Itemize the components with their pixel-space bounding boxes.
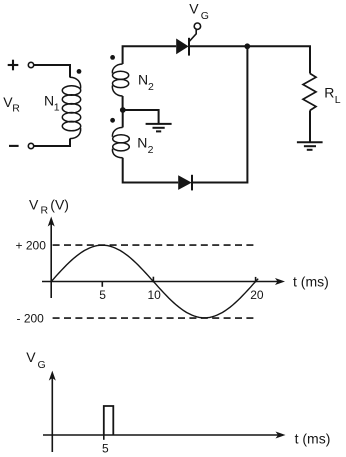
secondary coil N2 lower <box>112 127 129 157</box>
svg-text:V: V <box>29 197 39 213</box>
label VR source <box>3 94 20 115</box>
phase dot N2 upper <box>110 55 115 60</box>
svg-text:20: 20 <box>250 288 264 302</box>
svg-text:5: 5 <box>102 441 109 455</box>
dashed line -200 <box>53 317 256 319</box>
svg-text:- 200: - 200 <box>17 311 45 325</box>
tick 5 <box>101 282 103 287</box>
svg-text:G: G <box>201 10 209 22</box>
graph 1 x-axis <box>42 281 278 283</box>
svg-text:(V): (V) <box>50 197 69 213</box>
wire RL to ground <box>309 110 311 141</box>
label VG gate <box>189 1 209 23</box>
svg-text:R: R <box>12 103 20 115</box>
graph 1 axis label VR(V) <box>29 197 69 217</box>
plus terminal symbol <box>8 60 19 71</box>
wire upper N2 top <box>123 46 177 64</box>
ground RL <box>297 142 323 150</box>
svg-text:+ 200: + 200 <box>16 238 47 252</box>
label N2 upper <box>138 71 154 93</box>
SCR gate lead <box>189 30 196 42</box>
graph 2 y-axis <box>51 378 53 452</box>
gate terminal circle <box>194 23 200 29</box>
svg-text:R: R <box>41 205 49 217</box>
wire lower N2 top <box>122 110 124 127</box>
junction dot node A <box>244 43 250 49</box>
svg-text:N: N <box>137 135 147 151</box>
phase dot N2 lower <box>110 118 115 123</box>
svg-text:R: R <box>324 85 334 101</box>
phase dot N1 <box>77 69 82 74</box>
svg-text:2: 2 <box>148 81 154 93</box>
svg-text:t (ms): t (ms) <box>293 273 329 289</box>
wire upper N2 bottom to center tap <box>122 96 124 110</box>
svg-text:1: 1 <box>54 102 60 114</box>
svg-text:N: N <box>44 93 54 109</box>
primary coil N1 <box>62 77 80 138</box>
graph 2 label VG <box>26 349 45 371</box>
secondary coil N2 upper <box>112 64 128 96</box>
svg-text:V: V <box>189 1 199 17</box>
wire SCR cathode to junction and RL <box>189 46 310 73</box>
svg-text:L: L <box>335 94 341 106</box>
center tap junction dot <box>120 107 126 113</box>
graph 1 y-axis <box>50 224 52 298</box>
graph 2 x-axis <box>43 434 278 436</box>
svg-text:G: G <box>38 359 46 371</box>
svg-text:5: 5 <box>99 288 106 302</box>
dashed line +200 <box>53 244 255 246</box>
svg-text:t (ms): t (ms) <box>295 431 331 447</box>
wire junction down to bottom rail <box>192 46 247 182</box>
wire center tap to ground <box>123 110 159 123</box>
SCR D1 <box>176 38 189 56</box>
wire - terminal to primary <box>34 139 70 147</box>
wire + terminal to primary <box>34 65 70 78</box>
svg-text:10: 10 <box>148 288 162 302</box>
sine curve VR <box>51 245 258 318</box>
minus terminal symbol <box>9 145 19 147</box>
diode D2 <box>178 175 192 191</box>
svg-text:V: V <box>26 349 36 365</box>
terminal circle top-left <box>28 62 33 67</box>
ground center tap <box>146 124 172 131</box>
terminal circle bottom-left <box>28 143 33 148</box>
label RL <box>324 85 341 106</box>
svg-text:2: 2 <box>148 144 154 156</box>
tick 5 graph2 <box>103 435 105 440</box>
tick 20 <box>255 277 257 282</box>
gate pulse <box>104 406 114 435</box>
svg-text:N: N <box>138 71 148 87</box>
tick 10 <box>152 277 154 283</box>
wire lower N2 bottom rail <box>123 158 179 183</box>
label N1 <box>44 93 60 114</box>
label N2 lower <box>137 135 153 157</box>
resistor RL zigzag <box>303 74 316 111</box>
